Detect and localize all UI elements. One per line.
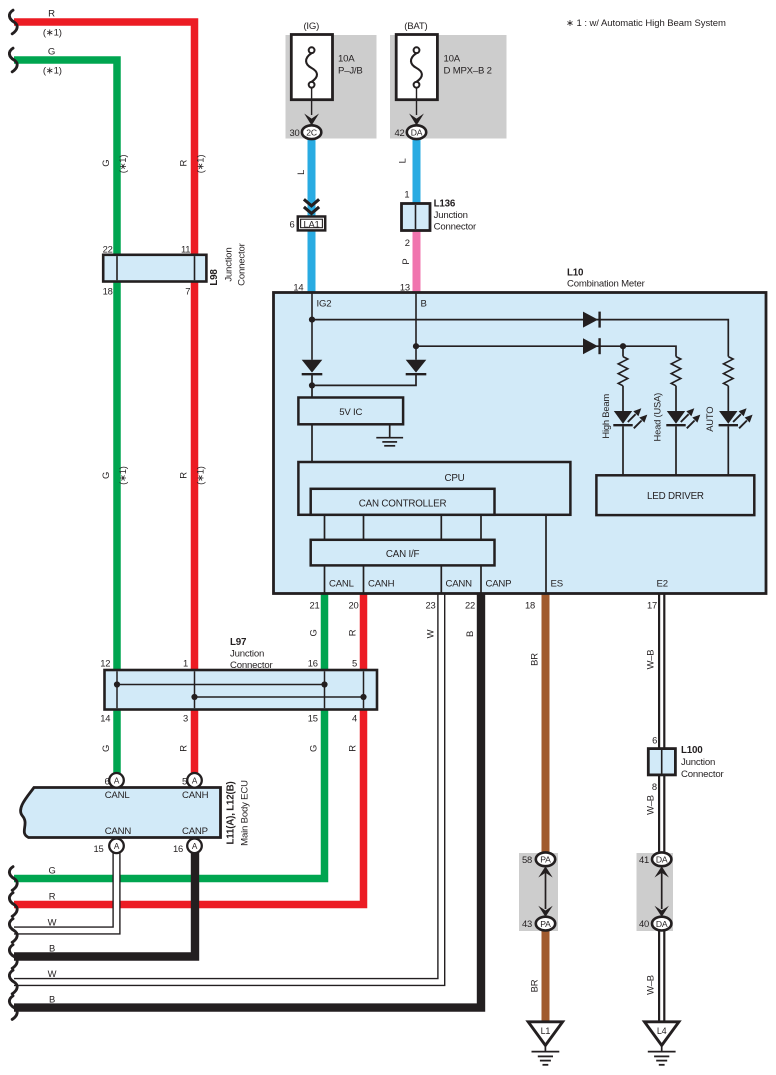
svg-text:W–B: W–B <box>645 795 656 815</box>
svg-text:G: G <box>100 472 111 479</box>
svg-text:5: 5 <box>352 657 357 668</box>
svg-text:3: 3 <box>183 713 188 724</box>
svg-text:E2: E2 <box>657 578 668 589</box>
svg-text:4: 4 <box>352 713 357 724</box>
svg-text:Connector: Connector <box>237 242 248 285</box>
svg-text:Main Body ECU: Main Body ECU <box>240 780 251 846</box>
svg-text:A: A <box>192 842 198 851</box>
svg-text:Junction: Junction <box>434 210 468 221</box>
svg-text:15: 15 <box>93 843 103 854</box>
svg-text:Junction: Junction <box>230 649 264 660</box>
svg-text:L10: L10 <box>567 268 584 279</box>
svg-text:L1: L1 <box>541 1026 551 1036</box>
svg-text:(∗1): (∗1) <box>195 155 206 174</box>
svg-text:Connector: Connector <box>230 660 273 671</box>
svg-text:42: 42 <box>394 127 404 138</box>
svg-text:B: B <box>421 298 427 309</box>
svg-text:W: W <box>424 629 435 638</box>
svg-text:1: 1 <box>404 188 409 199</box>
svg-text:A: A <box>114 842 120 851</box>
svg-text:PA: PA <box>540 919 551 929</box>
svg-text:18: 18 <box>525 600 535 611</box>
svg-text:AUTO: AUTO <box>704 407 715 432</box>
svg-text:R: R <box>347 745 358 752</box>
svg-text:G: G <box>100 745 111 752</box>
svg-text:30: 30 <box>289 127 299 138</box>
svg-text:5: 5 <box>182 775 187 786</box>
svg-text:CANH: CANH <box>182 790 209 801</box>
svg-text:10A: 10A <box>338 54 355 65</box>
svg-text:Connector: Connector <box>681 769 724 780</box>
svg-text:R: R <box>48 9 55 20</box>
svg-text:P: P <box>400 259 411 265</box>
svg-text:5V IC: 5V IC <box>339 407 362 418</box>
svg-text:CANN: CANN <box>446 578 473 589</box>
svg-text:20: 20 <box>348 600 358 611</box>
svg-text:(∗1): (∗1) <box>195 466 206 485</box>
svg-text:A: A <box>114 776 120 785</box>
svg-text:CANL: CANL <box>329 578 355 589</box>
svg-text:CANN: CANN <box>105 826 132 837</box>
svg-text:6: 6 <box>289 218 294 229</box>
svg-text:Head (USA): Head (USA) <box>652 393 663 442</box>
svg-text:High Beam: High Beam <box>600 394 611 439</box>
svg-text:DA: DA <box>411 127 423 137</box>
svg-text:L: L <box>295 170 306 175</box>
svg-text:12: 12 <box>100 657 110 668</box>
svg-text:L4: L4 <box>657 1026 667 1036</box>
svg-text:(∗1): (∗1) <box>117 466 128 485</box>
svg-text:6: 6 <box>652 734 657 745</box>
svg-text:R: R <box>347 629 358 636</box>
svg-text:22: 22 <box>465 600 475 611</box>
svg-text:L100: L100 <box>681 745 703 756</box>
svg-text:(∗1): (∗1) <box>43 65 62 76</box>
svg-text:BR: BR <box>529 979 540 992</box>
svg-text:(∗1): (∗1) <box>43 27 62 38</box>
svg-text:L136: L136 <box>434 198 456 209</box>
svg-text:ES: ES <box>551 578 563 589</box>
svg-text:B: B <box>464 631 475 637</box>
svg-text:7: 7 <box>185 285 190 296</box>
svg-text:21: 21 <box>309 600 319 611</box>
svg-text:16: 16 <box>308 657 318 668</box>
svg-text:Connector: Connector <box>434 222 477 233</box>
svg-text:R: R <box>178 745 189 752</box>
svg-text:CANH: CANH <box>368 578 395 589</box>
svg-text:L: L <box>397 158 408 163</box>
svg-text:2: 2 <box>405 237 410 248</box>
svg-text:L97: L97 <box>230 637 247 648</box>
svg-text:CANL: CANL <box>105 790 131 801</box>
svg-text:G: G <box>48 864 55 875</box>
svg-text:(BAT): (BAT) <box>404 21 427 32</box>
svg-text:LED DRIVER: LED DRIVER <box>647 491 704 502</box>
svg-text:(∗1): (∗1) <box>117 155 128 174</box>
svg-text:22: 22 <box>103 243 113 254</box>
svg-text:R: R <box>178 159 189 166</box>
svg-text:G: G <box>308 629 319 636</box>
svg-text:CANP: CANP <box>182 826 208 837</box>
svg-text:2C: 2C <box>306 127 317 137</box>
svg-text:W: W <box>48 968 57 979</box>
svg-text:LA1: LA1 <box>303 218 319 229</box>
svg-text:∗ 1 : w/ Automatic High Beam S: ∗ 1 : w/ Automatic High Beam System <box>566 18 726 29</box>
svg-text:DA: DA <box>656 919 668 929</box>
svg-text:8: 8 <box>652 781 657 792</box>
svg-text:Junction: Junction <box>681 757 715 768</box>
svg-text:14: 14 <box>293 281 303 292</box>
svg-text:G: G <box>100 160 111 167</box>
svg-text:Combination Meter: Combination Meter <box>567 279 646 290</box>
svg-text:B: B <box>49 942 55 953</box>
svg-text:L11(A), L12(B): L11(A), L12(B) <box>226 781 237 844</box>
svg-text:43: 43 <box>522 918 532 929</box>
svg-text:A: A <box>192 776 198 785</box>
svg-text:W: W <box>48 916 57 927</box>
svg-text:40: 40 <box>639 918 649 929</box>
svg-text:PA: PA <box>540 855 551 865</box>
svg-text:CANP: CANP <box>486 578 512 589</box>
svg-text:6: 6 <box>104 775 109 786</box>
svg-text:W–B: W–B <box>645 650 656 670</box>
svg-text:1: 1 <box>183 657 188 668</box>
svg-text:L98: L98 <box>209 269 220 286</box>
svg-text:CPU: CPU <box>444 473 464 484</box>
svg-text:15: 15 <box>308 713 318 724</box>
svg-text:DA: DA <box>656 855 668 865</box>
svg-text:23: 23 <box>425 600 435 611</box>
svg-text:P–J/B: P–J/B <box>338 65 363 76</box>
svg-text:CAN I/F: CAN I/F <box>386 549 420 560</box>
svg-text:CAN CONTROLLER: CAN CONTROLLER <box>359 499 447 510</box>
svg-text:14: 14 <box>100 713 110 724</box>
svg-text:18: 18 <box>103 285 113 296</box>
svg-text:16: 16 <box>173 843 183 854</box>
svg-text:Junction: Junction <box>224 248 235 282</box>
svg-text:G: G <box>308 745 319 752</box>
svg-text:R: R <box>178 472 189 479</box>
svg-text:11: 11 <box>181 243 190 254</box>
svg-text:IG2: IG2 <box>317 298 332 309</box>
svg-text:10A: 10A <box>444 54 461 65</box>
svg-text:D MPX–B 2: D MPX–B 2 <box>444 65 492 76</box>
svg-text:W–B: W–B <box>645 975 656 995</box>
svg-text:17: 17 <box>647 600 657 611</box>
svg-text:B: B <box>49 993 55 1004</box>
svg-text:41: 41 <box>639 854 649 865</box>
svg-text:13: 13 <box>400 281 410 292</box>
svg-text:BR: BR <box>529 653 540 666</box>
svg-text:(IG): (IG) <box>303 21 319 32</box>
svg-text:58: 58 <box>522 854 532 865</box>
svg-text:G: G <box>48 46 55 57</box>
svg-text:R: R <box>49 890 56 901</box>
